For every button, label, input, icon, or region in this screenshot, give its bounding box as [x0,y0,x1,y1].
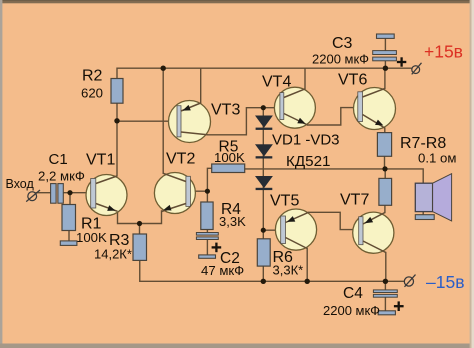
junction node diode chain top [261,105,266,110]
plus sign C2 [212,243,222,253]
wire: C4 top lead [384,281,386,290]
transistor VT4 [274,87,315,128]
wire: VT4 emitter to VT6 base [308,108,358,125]
ground below C2 [199,255,216,258]
wire: node B up to R5 left end [207,168,211,191]
wire: R6 top lead [262,230,264,239]
wire: speaker to ground bar [422,212,424,215]
resistor R3 [133,234,147,260]
junction node diode chain bottom / VT5 base [261,228,266,233]
wire: VT4 collector to rail [304,68,306,89]
junction node output R7/R8 [382,166,387,171]
svg-text:3,3K: 3,3K [219,214,246,229]
transistor VT3 [169,101,211,143]
wire: VT6 emitter to R7 [384,128,386,133]
plus sign C4 [394,301,404,311]
svg-text:3,3К*: 3,3К* [273,263,304,278]
wire: diode chain [262,108,264,231]
plus sign C3 [397,57,406,66]
junction node VT1 base / R1 [67,190,72,195]
wire: input terminal to C1 [36,192,50,194]
resistor R1 [62,205,76,231]
wire: C3 upper lead [384,38,386,50]
svg-text:47 мкФ: 47 мкФ [201,263,244,278]
transistor VT2 [154,173,195,214]
capacitor C2 [196,233,218,240]
capacitor C3 [373,51,397,61]
terminal -15V [404,275,415,287]
transistor VT1 [86,175,127,216]
wire: diode chain to VT5 base [263,229,280,231]
svg-text:VT1: VT1 [86,152,115,169]
wire: C2 to ground bar [206,240,208,255]
svg-text:Вход: Вход [6,177,35,191]
wire: R4 bottom to C2 [206,230,208,233]
wire: C1 to VT1 base [63,192,90,194]
ground below speaker [415,215,434,220]
wire: C4 bottom lead [384,297,386,311]
wire: VT5 emitter to VT7 base [309,212,359,229]
svg-text:100K: 100K [76,230,107,245]
junction node C4 on rail [383,279,388,284]
svg-text:–15в: –15в [426,272,465,292]
junction node at R2 bottom [114,118,119,123]
junction node top rail C3 [383,66,388,71]
svg-text:0.1 ом: 0.1 ом [418,151,456,166]
svg-text:VT3: VT3 [211,102,240,119]
svg-text:VT4: VT4 [262,74,291,91]
transistor VT6 [354,88,396,130]
resistor R2 [111,79,123,104]
wire: R5 right end to output node (feedback) [245,168,385,170]
svg-text:2200 мкФ: 2200 мкФ [323,303,380,318]
wire: R2 bottom to node A [116,103,118,121]
wire: output node to speaker [385,169,423,183]
svg-text:КД521: КД521 [286,153,330,170]
wire: node A down to VT1 collector [116,121,118,176]
diode VD2 [256,145,273,159]
svg-text:2,2 мкФ: 2,2 мкФ [38,169,85,184]
svg-text:+15в: +15в [424,42,463,62]
diode VD3 [256,176,273,190]
wire: VT2 base to node B [190,190,207,192]
svg-text:C1: C1 [49,151,68,168]
svg-text:VT5: VT5 [270,193,299,210]
wire: R1 top lead [69,193,71,205]
svg-text:VT2: VT2 [166,151,195,168]
wire: diode chain to VT4 base [263,107,280,109]
resistor R6 [257,239,270,266]
wire: node A to VT3 base [117,120,177,122]
svg-text:R7-R8: R7-R8 [400,135,446,152]
wire: R3 bottom to -15V rail [140,260,404,281]
wire: R8 bottom to VT7 emitter [384,205,386,212]
svg-text:VT6: VT6 [338,72,367,89]
wire: emitter node down to R3 [139,224,141,235]
junction node VT5 collector on rail [305,279,310,284]
wire: output node to R8 top [384,169,386,179]
wire: +15V top rail [117,68,412,78]
wire: node B down to R4 [206,191,208,202]
resistor R4 [201,202,213,230]
svg-text:620: 620 [81,86,103,101]
terminal +15V [412,63,422,75]
ground below R1 [60,241,77,246]
ground below C4 [378,311,395,315]
junction node VT2 base / R4 / R5 [205,189,210,194]
svg-text:VD1 -VD3: VD1 -VD3 [272,132,340,149]
wire: VT7 collector to -15V rail [385,253,387,282]
svg-text:C4: C4 [343,285,363,302]
wire: VT3 collector to diode chain top [208,108,264,135]
resistor R5 [212,164,245,173]
transistor VT5 [275,209,316,250]
wire: VT1 emitter to shared node [118,211,140,224]
transistor VT7 [353,212,394,253]
junction node shared emitters [137,221,142,226]
junction node top rail VT2 collector [161,66,166,71]
wire: R6 bottom lead [262,266,264,281]
capacitor C4 [373,290,397,297]
capacitor C1 [51,184,64,204]
wire: R1 bottom lead to ground [68,231,70,241]
wire: VT6 collector to rail [384,68,386,88]
wire: VT2 collector to rail [162,68,164,173]
svg-text:100K: 100K [214,150,245,165]
wire: VT2 emitter to shared node [140,211,162,224]
resistor R8 [379,178,392,205]
diode VD1 [256,116,273,130]
wire: R7 bottom to output node [384,156,386,169]
ground above C3 [377,34,395,38]
resistor R7 [377,133,391,157]
junction node R6 on rail [261,279,266,284]
wire: VT5 collector to -15V rail [306,249,308,282]
speaker [415,174,451,221]
svg-text:R2: R2 [82,68,103,85]
input terminal [26,190,40,202]
svg-text:14,2К*: 14,2К* [94,247,132,262]
wire: C3 lower lead [384,61,386,68]
svg-text:C3: C3 [332,35,353,52]
svg-text:VT7: VT7 [340,192,369,209]
svg-text:2200 мкФ: 2200 мкФ [312,52,369,67]
wire: VT3 emitter to rail [200,68,202,103]
